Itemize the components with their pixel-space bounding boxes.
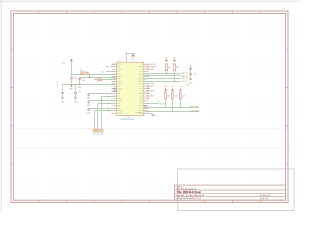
junction TP2 (108, 103, 109, 104)
svg-text:10k: 10k (175, 96, 178, 98)
ground GND2 (87, 101, 90, 103)
svg-text:100n: 100n (79, 91, 82, 93)
resistor R3 power (165, 89, 167, 92)
junction osc in (71, 74, 72, 75)
ground below C3 (61, 97, 64, 99)
wire VSS right stub (144, 113, 152, 115)
wire R2 down (174, 71, 176, 82)
junction R4 (172, 111, 173, 112)
svg-text:USB_SLEEP: USB_SLEEP (190, 106, 200, 108)
wire USB stub (144, 103, 159, 105)
wire R4 down (172, 99, 174, 112)
svg-text:+3V3: +3V3 (172, 58, 176, 60)
wire NRST long (62, 84, 117, 86)
svg-text:+3V3: +3V3 (164, 86, 168, 88)
ground below C4 (74, 97, 77, 99)
wire decoupling top (190, 70, 192, 73)
MCU U1 bottom pin stub (125, 116, 127, 118)
svg-text:20pF: 20pF (82, 80, 85, 82)
wire UART2_TX (144, 73, 181, 75)
page edge left (0, 0, 2, 212)
capacitor C1 (70, 78, 73, 79)
crystal Y1 body (82, 72, 88, 75)
svg-text:C?: C? (79, 89, 81, 91)
wire TP1 vertical (94, 111, 96, 128)
wire C1 to gnd (71, 79, 73, 85)
ground GND1 (87, 94, 90, 96)
svg-text:10k: 10k (56, 84, 59, 86)
wire SWDIO_B (144, 78, 181, 80)
svg-text:TP?: TP? (100, 134, 103, 136)
svg-text:USB_DM: USB_DM (159, 103, 166, 105)
wire USB_ID long (144, 111, 199, 113)
svg-text:Date: 2021-03-31: Date: 2021-03-31 (189, 194, 205, 197)
MCU U1 pin VSSA name (135, 111, 142, 114)
resistor R4 (171, 93, 173, 99)
wire SWCLK_B (144, 81, 181, 83)
wire TP2 row (98, 103, 117, 105)
svg-text:USB_PWREN: USB_PWREN (190, 111, 201, 113)
svg-text:20pF: 20pF (74, 78, 77, 80)
wire R3 down (165, 99, 167, 108)
MCU U1 top power pin wire (127, 54, 134, 63)
overlay rectangle (178, 169, 294, 211)
wire C2 drop (79, 77, 81, 80)
svg-text:31: 31 (128, 116, 130, 118)
power flag PWR01 (132, 53, 135, 56)
junction TP1 (108, 110, 109, 111)
svg-text:Y?: Y? (80, 68, 82, 70)
svg-text:10k: 10k (183, 96, 186, 98)
junction R3 (165, 107, 166, 108)
svg-text:C? 100n: C? 100n (97, 77, 103, 79)
junction NRST (75, 84, 76, 85)
MCU U1 pin names right column (140, 63, 143, 66)
ground below C5 (189, 78, 192, 80)
resistor R4 power (172, 89, 174, 92)
svg-text:8MHz: 8MHz (80, 70, 84, 72)
capacitor C5 (189, 73, 192, 74)
no-connect right (145, 105, 147, 107)
wire filter (94, 79, 117, 81)
wire TP3 vertical (101, 96, 103, 128)
wire R5 down (180, 99, 182, 108)
cap column C4 (75, 85, 77, 92)
svg-text:PC7_SDIO: PC7_SDIO (146, 96, 154, 98)
wire crystal right leg (89, 75, 91, 78)
svg-text:SWCLK_B: SWCLK_B (181, 81, 187, 83)
wire TP1 row (94, 110, 116, 112)
wire VDD (106, 71, 116, 73)
resistor R1 (165, 64, 167, 71)
svg-text:PB15_MOSI: PB15_MOSI (146, 91, 154, 93)
test point TP3 (101, 128, 103, 129)
svg-text:PB13_SCK: PB13_SCK (146, 86, 154, 88)
svg-text:R?: R? (56, 83, 58, 85)
svg-text:PC6: PC6 (146, 93, 149, 95)
svg-text:Title: MIDI BLE Pedal: Title: MIDI BLE Pedal (177, 190, 202, 194)
resistor R1 power (166, 59, 168, 62)
wire USB_DP long (144, 107, 199, 109)
svg-text:DIO2_nIRQ: DIO2_nIRQ (146, 69, 154, 71)
junction R2 (174, 81, 175, 82)
wire VSS2 (89, 100, 117, 102)
wire C3 to gnd (62, 94, 64, 98)
resistor R5 power (180, 89, 182, 92)
junction TP3 (108, 96, 109, 97)
resistor R3 (164, 93, 166, 99)
svg-text:+3V3: +3V3 (186, 84, 190, 86)
resistor R5 (179, 93, 181, 99)
svg-text:STM32F401RETx: STM32F401RETx (120, 119, 135, 121)
wire VBUS stub (144, 83, 150, 85)
wire OSC_OUT (79, 77, 116, 79)
capacitor C2 (78, 78, 81, 79)
grid dots (8, 8, 299, 208)
svg-text:SWDIO_B: SWDIO_B (181, 78, 187, 80)
wire OSC_IN (71, 74, 117, 76)
wire C4 to gnd (75, 94, 77, 98)
wire VSS3 (89, 108, 117, 110)
ground below C2 (78, 83, 81, 85)
svg-text:+3V3: +3V3 (179, 86, 183, 88)
svg-text:100n: 100n (193, 74, 196, 76)
svg-text:PC13: PC13 (112, 64, 116, 66)
fine grid row C (18, 206, 290, 208)
junction R1 (166, 73, 167, 74)
no-connect left 2 (115, 90, 117, 92)
sheet frame inner (13, 14, 285, 201)
junction crystal right (89, 77, 90, 78)
svg-text:TP?: TP? (96, 134, 99, 136)
sheet frame outer (11, 11, 288, 203)
svg-text:C?: C? (193, 72, 195, 74)
svg-text:C?: C? (74, 76, 76, 78)
test point TP2 (97, 128, 99, 129)
wire R1 down (166, 71, 168, 74)
no-connect left 1 (115, 88, 117, 90)
wire left power column (71, 62, 73, 77)
resistor R2 (173, 64, 175, 71)
svg-text:10k: 10k (167, 96, 170, 98)
MCU U1 body (117, 62, 144, 115)
svg-text:C?: C? (82, 78, 84, 80)
svg-text:PC8: PC8 (146, 98, 149, 100)
test point TP1 (94, 128, 96, 129)
frame zone ticks (11, 11, 288, 203)
wire C2 to gnd (79, 80, 81, 84)
wire TP2 vertical (97, 103, 99, 127)
wire VBAT (110, 66, 116, 68)
svg-text:+3V3: +3V3 (62, 63, 66, 65)
resistor R2 power (174, 59, 176, 62)
svg-text:PB14: PB14 (146, 88, 150, 90)
wire C5 to gnd (190, 75, 192, 79)
MCU U1 right pins (144, 64, 149, 113)
title block lines (175, 190, 286, 200)
resistor R6 inline (97, 79, 101, 81)
fine grid row B (18, 148, 290, 150)
fine grid row A (18, 127, 290, 129)
MCU U1 pin names left column (117, 63, 121, 66)
svg-text:+3V3: +3V3 (131, 58, 135, 60)
junction R5 (180, 107, 181, 108)
svg-text:Id: 1/1: Id: 1/1 (262, 198, 268, 200)
decoupling power +3V3 (190, 67, 192, 70)
svg-text:KiCad E.D.A. kicad (5.1.9)-1: KiCad E.D.A. kicad (5.1.9)-1 (177, 197, 202, 200)
wire UART2_RX (144, 75, 181, 77)
MCU U1 left pins (111, 64, 116, 113)
reset cap column C3 (62, 85, 64, 92)
svg-text:4k7: 4k7 (176, 67, 178, 69)
ground below C1 (70, 85, 73, 87)
svg-text:+3V3: +3V3 (171, 86, 175, 88)
page edge top (0, 0, 300, 2)
title block box (175, 185, 286, 200)
svg-text:4k7: 4k7 (168, 67, 170, 69)
wire VSS1 (89, 93, 117, 95)
svg-text:Rev: 1.0: Rev: 1.0 (262, 195, 270, 197)
wire TP3 row (101, 96, 116, 98)
ground GND3 (87, 109, 90, 111)
ground GND4 below right stub (151, 114, 154, 116)
svg-text:+3V3: +3V3 (164, 58, 168, 60)
power +3V3 left (71, 59, 73, 62)
svg-text:+3V3: +3V3 (189, 66, 193, 68)
svg-text:Size: A4: Size: A4 (177, 194, 185, 197)
